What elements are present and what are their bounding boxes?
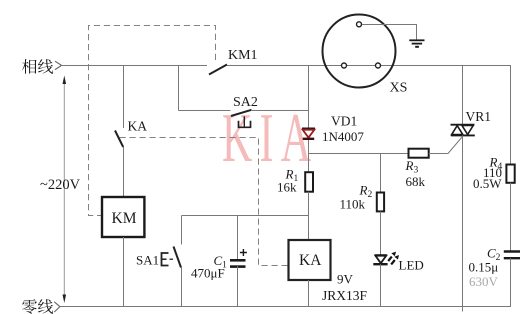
wire R4 to C2 — [510, 183, 512, 252]
node N neutral line label 零线 — [22, 299, 53, 314]
wire R2 to LED — [380, 211, 382, 255]
svg-text:KM: KM — [112, 210, 137, 227]
svg-text:LED: LED — [399, 258, 424, 273]
svg-text:110k: 110k — [340, 197, 366, 212]
svg-text:SA1: SA1 — [136, 253, 159, 268]
wire R1 to KA coil — [308, 192, 310, 240]
capacitor C2 — [504, 252, 520, 259]
svg-text:KA: KA — [128, 119, 148, 134]
wire KA branch upper — [123, 66, 125, 129]
LED indicator — [373, 252, 399, 265]
svg-text:9V: 9V — [337, 271, 354, 286]
wire phase to VD1 — [308, 66, 310, 129]
wire SA2 branch vertical — [178, 66, 180, 111]
wire SA2 to VD1 node — [252, 110, 309, 112]
wire SA2 branch horizontal left — [179, 110, 231, 112]
pushbutton SA1 actuator — [162, 253, 176, 266]
svg-text:~220V: ~220V — [40, 177, 81, 193]
socket XS earth pin — [357, 22, 362, 27]
wire SA1 upper — [181, 216, 183, 245]
wire neutral line — [60, 306, 511, 308]
wire KA coil to neutral — [308, 280, 310, 307]
svg-text:VR1: VR1 — [466, 109, 492, 124]
svg-text:470μF: 470μF — [191, 266, 225, 281]
node L phase line label 相线 — [22, 59, 53, 74]
wire phase line left segment — [60, 65, 207, 67]
socket XS outline — [323, 15, 396, 88]
socket XS left pin — [342, 63, 347, 68]
wire KM coil to neutral — [123, 237, 125, 307]
resistor R4 — [506, 165, 514, 183]
wire C1 to neutral — [237, 266, 239, 307]
wire VR1 to neutral — [462, 135, 464, 311]
svg-text:XS: XS — [390, 81, 408, 96]
pushbutton SA1 blade — [174, 247, 182, 268]
svg-text:0.15μ: 0.15μ — [469, 260, 499, 275]
triac VR1 — [451, 125, 475, 136]
svg-text:KA: KA — [299, 252, 322, 269]
capacitor C1 polarized — [230, 249, 247, 267]
svg-text:SA2: SA2 — [233, 95, 258, 110]
svg-text:68k: 68k — [406, 174, 426, 189]
resistor R2 — [377, 193, 384, 212]
dashed linkage KM1 to KM coil — [89, 26, 216, 216]
wire LED to neutral — [380, 264, 382, 306]
svg-text:16k: 16k — [277, 180, 297, 195]
wire branch node A horizontal to SA1/C1 — [182, 215, 309, 217]
relay coil KA box — [289, 240, 331, 280]
svg-text:JRX13F: JRX13F — [322, 288, 368, 303]
dashed linkage KA contact to KA coil — [120, 138, 289, 266]
wire VD1 to node A — [308, 140, 310, 172]
wire phase line right segment — [227, 65, 511, 67]
relay contact KA — [115, 131, 123, 148]
voltage arrow ~220V span — [63, 76, 67, 304]
wire phase to VR1 — [462, 66, 464, 125]
wire node A to R3 — [309, 153, 409, 155]
svg-text:630V: 630V — [469, 274, 499, 289]
contactor contact KM1 — [209, 65, 227, 75]
pushbutton SA2 actuator — [239, 116, 251, 127]
svg-text:0.5W: 0.5W — [473, 176, 502, 191]
pushbutton SA2 blade — [231, 110, 252, 116]
socket XS right pin — [376, 63, 381, 68]
wire C1 upper — [237, 216, 239, 260]
contactor coil KM box — [102, 197, 144, 237]
wire right edge phase to R4 — [510, 66, 512, 165]
resistor R1 — [305, 172, 313, 192]
phase line input chevron — [55, 61, 62, 69]
wire R2 branch upper — [380, 154, 382, 193]
neutral line input chevron — [54, 302, 60, 312]
resistor R3 — [409, 149, 429, 158]
wire KA contact to KM coil — [123, 147, 125, 197]
ground symbol — [409, 40, 424, 47]
svg-text:KM1: KM1 — [228, 48, 258, 63]
wire earth pin to ground — [362, 25, 417, 40]
diode VD1 — [302, 128, 315, 138]
svg-text:VD1: VD1 — [331, 114, 357, 129]
wire R3 to VR1 gate — [429, 137, 463, 154]
svg-text:1N4007: 1N4007 — [322, 129, 364, 144]
wire SA1 to neutral — [181, 268, 183, 307]
wire C2 to neutral — [510, 258, 512, 306]
